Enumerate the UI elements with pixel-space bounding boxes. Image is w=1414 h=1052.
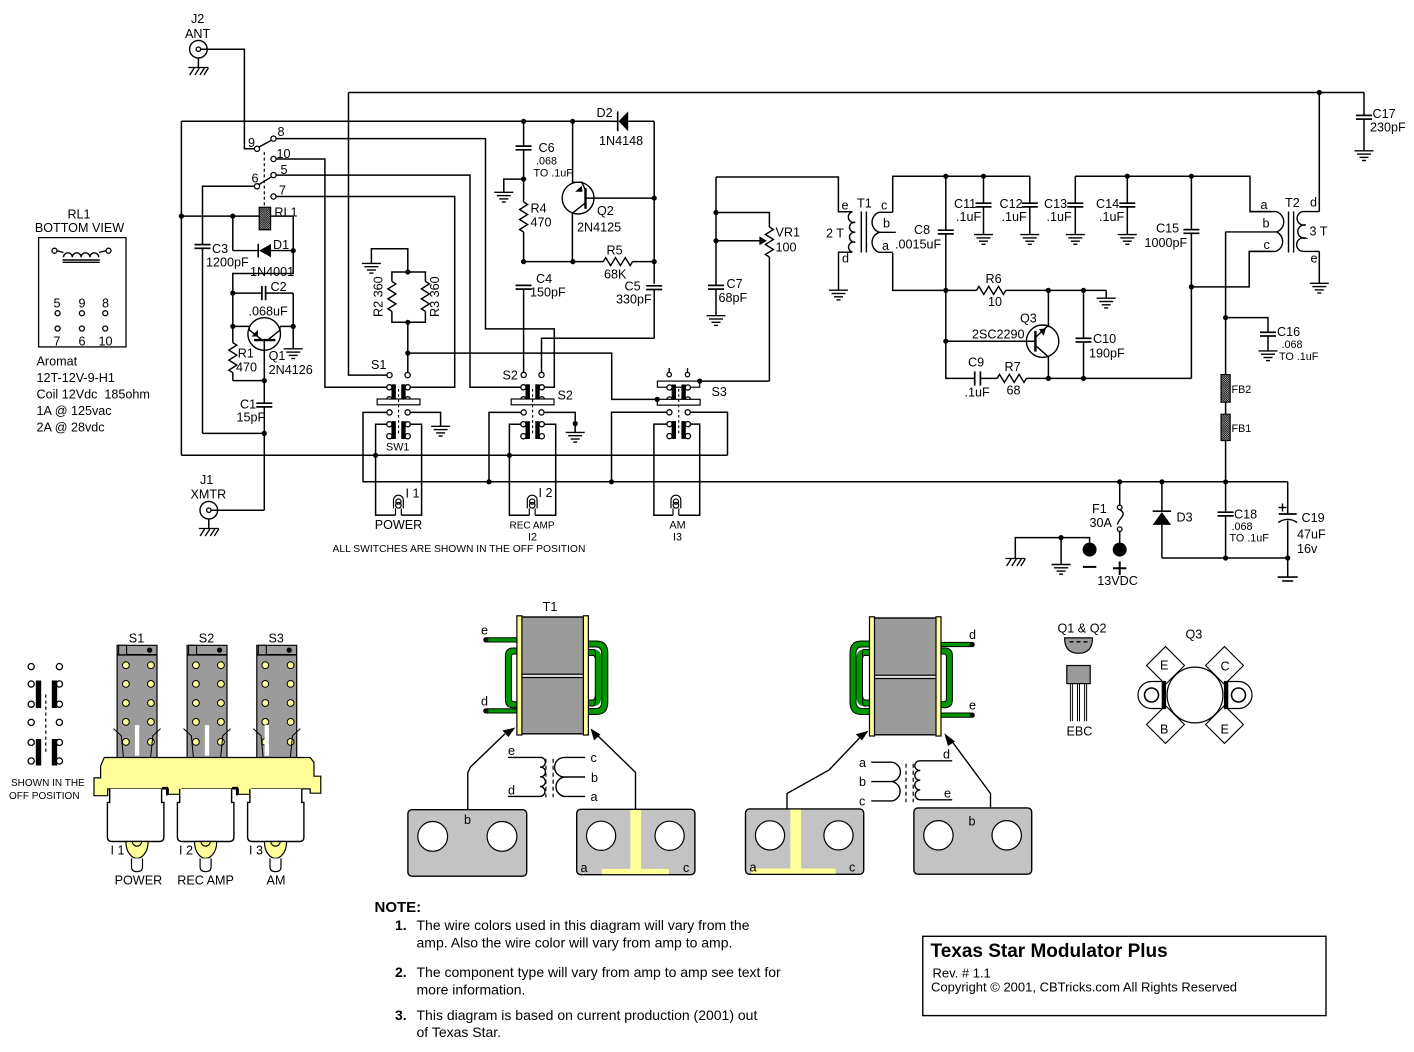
T1 winding mini-schematic — [508, 744, 598, 804]
svg-text:2N4126: 2N4126 — [269, 363, 313, 377]
node: Q3 base junction — [943, 339, 948, 344]
svg-text:S2: S2 — [503, 369, 518, 383]
T1 core gray — [522, 617, 584, 734]
node: C10 top — [1081, 288, 1086, 293]
connector J1 (BNC) — [191, 473, 227, 519]
node: S3 plate / VR1 junction — [697, 379, 702, 384]
capacitor C1 15pF — [237, 381, 273, 511]
wire VR1 bottom to S3 plate — [700, 380, 770, 382]
switch S3 top plate — [657, 381, 699, 387]
node: C15 bottom junction — [1189, 284, 1194, 289]
svg-text:d: d — [969, 628, 976, 642]
svg-text:.1uF: .1uF — [1099, 210, 1125, 224]
svg-text:470: 470 — [531, 216, 552, 230]
node: top frame at T2 — [1317, 90, 1322, 95]
svg-text:e: e — [508, 744, 515, 758]
svg-text:2A @ 28vdc: 2A @ 28vdc — [37, 421, 105, 435]
transistor Q1 2N4126 — [233, 318, 313, 381]
relay RL1 contact 9 — [254, 146, 259, 151]
connector J2 (BNC) — [185, 12, 210, 58]
svg-text:R7: R7 — [1005, 360, 1021, 374]
resistor R3 360 — [408, 272, 442, 322]
wire T2-b node to C16 — [1226, 318, 1268, 333]
svg-text:I 3: I 3 — [249, 844, 263, 858]
svg-text:C11: C11 — [954, 197, 976, 211]
bus1 y=455.3 — [181, 454, 727, 456]
svg-text:C12: C12 — [1000, 197, 1023, 211]
svg-text:190pF: 190pF — [1089, 347, 1125, 361]
ground under T2-e — [1310, 283, 1329, 293]
T2i lead e — [941, 699, 976, 718]
T1 lead d — [481, 695, 522, 714]
relay RL1 contact 6 — [254, 184, 259, 189]
wire Q3 base drop to C9 — [946, 341, 974, 378]
svg-text:a: a — [882, 239, 889, 253]
svg-text:12T-12V-9-H1: 12T-12V-9-H1 — [37, 371, 115, 385]
svg-text:NOTE:: NOTE: — [375, 899, 422, 916]
svg-text:AM: AM — [267, 874, 286, 888]
transistor Q3 2SC2290 — [946, 290, 1059, 378]
svg-text:.068: .068 — [536, 156, 557, 168]
T2i winding mini-schematic — [859, 748, 952, 809]
RL1 pin circles row 1 — [55, 311, 108, 316]
transformer T1 secondary taps c b a — [872, 199, 896, 254]
svg-text:230pF: 230pF — [1370, 121, 1406, 135]
capacitor C18 .068 TO .1uF — [1218, 482, 1270, 558]
ferrite bead FB1 — [1221, 414, 1251, 440]
node: Q3 emitter bottom — [1046, 376, 1051, 381]
svg-text:Rev. # 1.1: Rev. # 1.1 — [933, 966, 991, 981]
top frame wire y=92.5 — [349, 92, 1365, 94]
potentiometer VR1 100 — [716, 226, 800, 382]
fuse F1 30A — [1090, 482, 1124, 543]
node: power ground junction — [1059, 535, 1064, 540]
wire C2 to Q1 collector node — [292, 293, 294, 324]
wire S2 rowC left to bus2 — [489, 412, 521, 481]
ground at R6 right — [1097, 290, 1116, 308]
diode D1 1N4001 — [233, 238, 294, 279]
T1 lug plate a-c (right) — [577, 767, 695, 875]
svg-text:S3: S3 — [268, 632, 283, 646]
RL1 bottom view box — [39, 238, 126, 347]
svg-text:6: 6 — [252, 172, 259, 186]
svg-text:a: a — [859, 756, 866, 770]
wire T1-c up to bus A — [893, 176, 1030, 212]
svg-text:.068: .068 — [1232, 521, 1253, 533]
resistor R4 470 — [520, 202, 552, 262]
wire T2-e to ground — [1318, 251, 1320, 283]
svg-text:C17: C17 — [1373, 107, 1396, 121]
node: D1 cathode junction — [291, 248, 296, 253]
svg-text:T1: T1 — [543, 600, 558, 614]
capacitor C10 190pF — [1076, 290, 1126, 378]
Q3 screw tab left — [1138, 682, 1166, 709]
node: D1 anode junction on coil wire — [230, 214, 235, 219]
svg-text:e: e — [842, 199, 849, 213]
left vertical wire x=181.4 — [180, 121, 182, 455]
wire bottom return up to C15 node — [1190, 287, 1192, 379]
wire C3 bottom to C1 bottom node — [203, 432, 265, 434]
resistor R7 68 — [997, 360, 1191, 398]
svg-text:I 1: I 1 — [406, 487, 420, 501]
capacitor C8 .0015uF — [895, 176, 954, 341]
wire D1 loop to Q1 base branch — [233, 251, 293, 291]
wire S1 rowC right to ground — [410, 412, 440, 426]
svg-text:1000pF: 1000pF — [1145, 236, 1188, 250]
svg-text:I 1: I 1 — [111, 844, 125, 858]
svg-text:I 2: I 2 — [539, 486, 553, 500]
ground (chassis) at power entry — [1005, 559, 1025, 567]
transformer T2 primary taps a b c — [1226, 198, 1284, 252]
svg-text:ALL SWITCHES ARE SHOWN IN THE: ALL SWITCHES ARE SHOWN IN THE OFF POSITI… — [333, 544, 586, 555]
svg-text:Q1 & Q2: Q1 & Q2 — [1058, 622, 1107, 636]
svg-text:TO .1uF: TO .1uF — [534, 168, 574, 180]
node: Q1 right junction — [291, 324, 296, 329]
svg-text:D2: D2 — [597, 106, 613, 120]
TO-92 top view — [1065, 638, 1093, 653]
T2i bobbin flange right — [936, 617, 941, 736]
svg-text:.1uF: .1uF — [1002, 210, 1028, 224]
lamp dome I2 — [179, 842, 217, 872]
node: bus2 at F1 — [1117, 479, 1122, 484]
ground at power entry — [1052, 538, 1071, 575]
RL1 coil symbol in box — [52, 248, 111, 262]
bus B y=176.2 — [1075, 176, 1271, 211]
capacitor C4 150pF — [516, 272, 566, 372]
svg-text:1200pF: 1200pF — [206, 256, 249, 270]
switch S3 row C contacts — [667, 410, 672, 415]
node: R5 right junction — [652, 259, 657, 264]
lamp I3 — [671, 495, 681, 515]
T1 green loop left — [508, 651, 517, 705]
svg-text:C4: C4 — [536, 272, 552, 286]
svg-text:100: 100 — [776, 241, 797, 255]
wire S1 rowC left to bus2 — [363, 412, 387, 481]
svg-text:b: b — [969, 815, 976, 829]
capacitor C5 330pF — [616, 280, 662, 339]
node: R2R3 bottom — [405, 320, 410, 325]
svg-text:S3: S3 — [712, 385, 727, 399]
svg-text:b: b — [591, 771, 598, 785]
ground (chassis) under J1 — [199, 519, 219, 536]
svg-text:E: E — [1221, 723, 1229, 737]
RL1 pin circles row 2 — [55, 326, 108, 331]
switch S3 stem contacts — [667, 368, 690, 377]
svg-text:C16: C16 — [1277, 325, 1300, 339]
node: bus B at C15 — [1189, 174, 1194, 179]
switch S2 contacts — [521, 372, 526, 377]
relay RL1 contact 10 — [271, 156, 276, 161]
wire D2 right vertical x=654.2 — [653, 121, 655, 284]
switch S1 actuator dashed — [398, 389, 400, 434]
svg-text:R2 360: R2 360 — [372, 276, 386, 317]
svg-text:c: c — [683, 861, 689, 875]
wire J2 to relay contact 9 — [201, 49, 255, 149]
svg-text:C2: C2 — [271, 280, 287, 294]
capacitor C11 .1uF — [954, 176, 993, 244]
wire D1 anode up to coil wire — [232, 216, 234, 251]
Q3 screw tab right — [1225, 682, 1253, 709]
svg-text:I2: I2 — [528, 532, 537, 544]
svg-text:68pF: 68pF — [719, 291, 748, 305]
svg-text:b: b — [859, 775, 866, 789]
svg-text:AM: AM — [669, 520, 685, 532]
svg-text:a: a — [750, 861, 757, 875]
switch S1 plate — [377, 399, 420, 405]
svg-text:b: b — [883, 217, 890, 231]
svg-text:RL1: RL1 — [67, 208, 90, 222]
wire T2-b down to FB2 — [1225, 232, 1227, 375]
capacitor C12 .1uF — [1000, 176, 1040, 244]
capacitor C2 .068uF — [233, 280, 293, 319]
switch S3 lower block — [667, 421, 691, 439]
capacitor C14 .1uF — [1096, 176, 1137, 244]
capacitor C13 .1uF — [1044, 176, 1085, 244]
svg-text:SW1: SW1 — [386, 442, 409, 454]
svg-text:RL1: RL1 — [274, 206, 297, 220]
svg-text:Q3: Q3 — [1020, 312, 1037, 326]
svg-text:8: 8 — [102, 297, 109, 311]
svg-text:2.: 2. — [395, 964, 407, 980]
svg-text:POWER: POWER — [115, 874, 163, 888]
yellow mounting bracket — [94, 758, 321, 796]
capacitor C15 1000pF — [1145, 176, 1200, 287]
svg-text:2N4125: 2N4125 — [577, 221, 621, 235]
svg-text:2 T: 2 T — [826, 227, 844, 241]
svg-text:T1: T1 — [857, 197, 872, 211]
transformer T2 secondary (3T) — [1297, 196, 1328, 266]
wire FB1 to bus2 — [1225, 441, 1227, 482]
svg-text:e: e — [944, 787, 951, 801]
capacitor C16 .068 TO .1uF — [1259, 325, 1319, 363]
lamp I1 box — [376, 424, 422, 515]
ground under C19 — [1278, 577, 1298, 581]
svg-text:c: c — [1264, 238, 1270, 252]
svg-text:c: c — [591, 751, 597, 765]
svg-text:1N4001: 1N4001 — [250, 265, 294, 279]
svg-text:30A: 30A — [1090, 516, 1113, 530]
wire S2 rowC right to ground — [544, 412, 575, 432]
svg-text:TO .1uF: TO .1uF — [1279, 351, 1319, 363]
T2i lug plate a-c (left, with trace) — [746, 770, 864, 875]
ground at R2/R3 top — [362, 263, 381, 273]
bus2 y=481.8 — [363, 481, 1288, 483]
node: bus2 at S2 drop — [486, 479, 491, 484]
T2i arrow from right lug — [944, 733, 990, 793]
node: C8 bottom / R6 left — [943, 288, 948, 293]
svg-text:C3: C3 — [212, 242, 228, 256]
switch S2 lower block — [521, 421, 545, 439]
ground right of S2 — [566, 432, 585, 442]
svg-text:3 T: 3 T — [1310, 225, 1328, 239]
node: Q2 collector top junction — [570, 119, 575, 124]
svg-text:13VDC: 13VDC — [1097, 574, 1138, 588]
svg-text:EBC: EBC — [1067, 725, 1093, 739]
svg-text:C: C — [1221, 660, 1230, 674]
svg-text:.068: .068 — [1282, 339, 1303, 351]
relay arm 9-8 — [259, 140, 272, 147]
svg-text:7: 7 — [53, 335, 60, 349]
svg-text:POWER: POWER — [375, 518, 423, 532]
svg-text:150pF: 150pF — [530, 286, 566, 300]
switch SW1 lower block — [387, 421, 411, 439]
svg-text:of Texas Star.: of Texas Star. — [417, 1024, 502, 1040]
ground under T1 primary — [829, 290, 848, 300]
svg-text:b: b — [464, 813, 471, 827]
node: C1 bottom junction — [262, 431, 267, 436]
switch S2 actuator dashed — [532, 389, 534, 434]
white switch body 1 — [107, 789, 163, 842]
ground (chassis) under J2 — [188, 58, 208, 75]
node: bus2 at C18 — [1223, 479, 1228, 484]
svg-text:e: e — [481, 624, 488, 638]
T1 green loops right (double) — [588, 644, 605, 712]
svg-text:Aromat: Aromat — [37, 355, 78, 369]
bottom power rail y=558 — [1162, 557, 1288, 559]
wire contact 6 to C3 branch — [203, 186, 255, 240]
switch S1 contacts — [387, 373, 392, 378]
svg-text:b: b — [1263, 217, 1270, 231]
svg-text:6: 6 — [78, 335, 85, 349]
svg-text:c: c — [849, 861, 855, 875]
node: VR1 wiper junction — [713, 238, 718, 243]
T2i green loop right — [941, 651, 950, 705]
T2i core gray — [874, 618, 936, 735]
RL1 part info text — [37, 355, 150, 435]
svg-text:.1uF: .1uF — [956, 210, 982, 224]
node: R2R3 bus junction — [405, 351, 410, 356]
node: Q1 base junction — [230, 291, 235, 296]
svg-text:C19: C19 — [1302, 511, 1325, 525]
capacitor C9 .1uF — [965, 356, 998, 400]
svg-text:C5: C5 — [625, 280, 641, 294]
node: T2-b junction — [1223, 315, 1228, 320]
diode D3 — [1153, 482, 1193, 558]
T1 arrow from right lug — [591, 729, 630, 768]
transformer T2 core — [1285, 196, 1300, 253]
svg-text:Q2: Q2 — [597, 204, 614, 218]
wire R2R3 top to ground — [371, 249, 407, 272]
wire S3 rowC right to bus1 end — [690, 412, 727, 455]
svg-text:OFF POSITION: OFF POSITION — [9, 791, 80, 802]
svg-text:The wire colors used in this d: The wire colors used in this diagram wil… — [417, 917, 750, 933]
wire FB2-FB1 link — [1225, 402, 1227, 414]
Q3 diamond tabs — [1147, 647, 1185, 685]
wire contact 5 to S2 upper block left — [276, 175, 521, 387]
Q3 body circle — [1167, 667, 1223, 723]
wire R2R3 bottom to S1 right contact — [407, 322, 409, 372]
node: bus1 at I1 box — [373, 453, 378, 458]
svg-text:C1: C1 — [240, 398, 256, 412]
svg-text:R6: R6 — [986, 272, 1002, 286]
node: bus2 at S3 drop — [609, 479, 614, 484]
svg-text:D3: D3 — [1177, 511, 1193, 525]
mini switch bars upper — [36, 681, 57, 709]
node: Q2 emitter junction — [570, 259, 575, 264]
node: bus A at C8 — [943, 174, 948, 179]
relay RL1 contact 5 — [271, 173, 276, 178]
svg-text:9: 9 — [78, 297, 85, 311]
lamp I1 — [394, 495, 404, 515]
svg-text:BOTTOM VIEW: BOTTOM VIEW — [35, 221, 124, 235]
svg-text:B: B — [1160, 723, 1168, 737]
svg-text:Q3: Q3 — [1186, 628, 1203, 642]
node: Q1 emitter / R1 / C1 junction — [262, 378, 267, 383]
svg-text:a: a — [591, 790, 598, 804]
resistor R6 10 — [946, 272, 1106, 309]
diode D2 1N4148 — [597, 106, 655, 148]
capacitor C6 .068 TO .1uF — [516, 121, 574, 202]
capacitor C3 1200pF — [195, 241, 250, 434]
terminal 13VDC plus — [1097, 543, 1138, 588]
wire minus terminal to grounds — [1015, 538, 1089, 559]
svg-text:.0015uF: .0015uF — [895, 238, 942, 252]
svg-text:J2: J2 — [191, 12, 204, 26]
svg-text:d: d — [1310, 196, 1317, 210]
svg-text:T2: T2 — [1285, 196, 1300, 210]
svg-text:e: e — [1311, 252, 1318, 266]
relay actuator dashed link — [263, 152, 265, 207]
relay arm 6-5 — [259, 177, 272, 185]
svg-text:1N4148: 1N4148 — [599, 134, 643, 148]
capacitor C7 68pF — [708, 277, 748, 316]
svg-text:d: d — [842, 252, 849, 266]
svg-text:5: 5 — [53, 297, 60, 311]
T1 bobbin flange right — [583, 616, 588, 735]
svg-text:e: e — [969, 699, 976, 713]
svg-text:C18: C18 — [1234, 508, 1257, 522]
svg-text:D1: D1 — [273, 238, 289, 252]
svg-text:R5: R5 — [607, 244, 623, 258]
mini switch dashed actuator — [45, 695, 47, 754]
svg-text:C7: C7 — [727, 277, 743, 291]
node: R4/C4 junction — [521, 259, 526, 264]
svg-text:15pF: 15pF — [237, 411, 266, 425]
svg-text:2SC2290: 2SC2290 — [972, 328, 1025, 342]
capacitor C17 230pF — [1355, 93, 1407, 161]
svg-text:FB1: FB1 — [1232, 423, 1252, 435]
svg-text:F1: F1 — [1092, 502, 1107, 516]
T1 bobbin flange left — [517, 616, 522, 735]
svg-text:J1: J1 — [200, 473, 213, 487]
switch S3 lower plate — [657, 399, 700, 405]
resistor R5 68K — [603, 244, 632, 282]
svg-text:c: c — [881, 199, 887, 213]
node: Q1 left junction — [230, 324, 235, 329]
svg-text:3.: 3. — [395, 1007, 407, 1023]
wire RL1 coil feed — [181, 216, 293, 248]
svg-text:Coil 12Vdc 185ohm: Coil 12Vdc 185ohm — [37, 388, 150, 402]
switch tower S2 — [184, 632, 231, 759]
svg-text:amp. Also the wire color will: amp. Also the wire color will vary from … — [417, 935, 733, 951]
wire S3 rowC left to bus2 — [612, 412, 667, 482]
svg-text:C14: C14 — [1096, 197, 1119, 211]
svg-text:1A @ 125vac: 1A @ 125vac — [37, 404, 112, 418]
node: C19 bottom — [1285, 555, 1290, 560]
node: bus B at C14 — [1125, 174, 1130, 179]
ferrite bead FB2 — [1221, 375, 1251, 403]
T1 core divider — [522, 674, 584, 677]
svg-text:a: a — [581, 861, 588, 875]
svg-text:The component type will vary f: The component type will vary from amp to… — [417, 964, 781, 980]
T2i lug plate b (right) — [914, 794, 1032, 875]
lamp dome I1 — [111, 842, 149, 872]
svg-text:This diagram is based on curre: This diagram is based on current product… — [417, 1007, 758, 1023]
svg-text:SHOWN IN THE: SHOWN IN THE — [11, 778, 85, 789]
svg-text:more information.: more information. — [417, 982, 526, 998]
wire R5 bus — [524, 261, 655, 263]
T1 arrow from left lug — [471, 728, 516, 768]
